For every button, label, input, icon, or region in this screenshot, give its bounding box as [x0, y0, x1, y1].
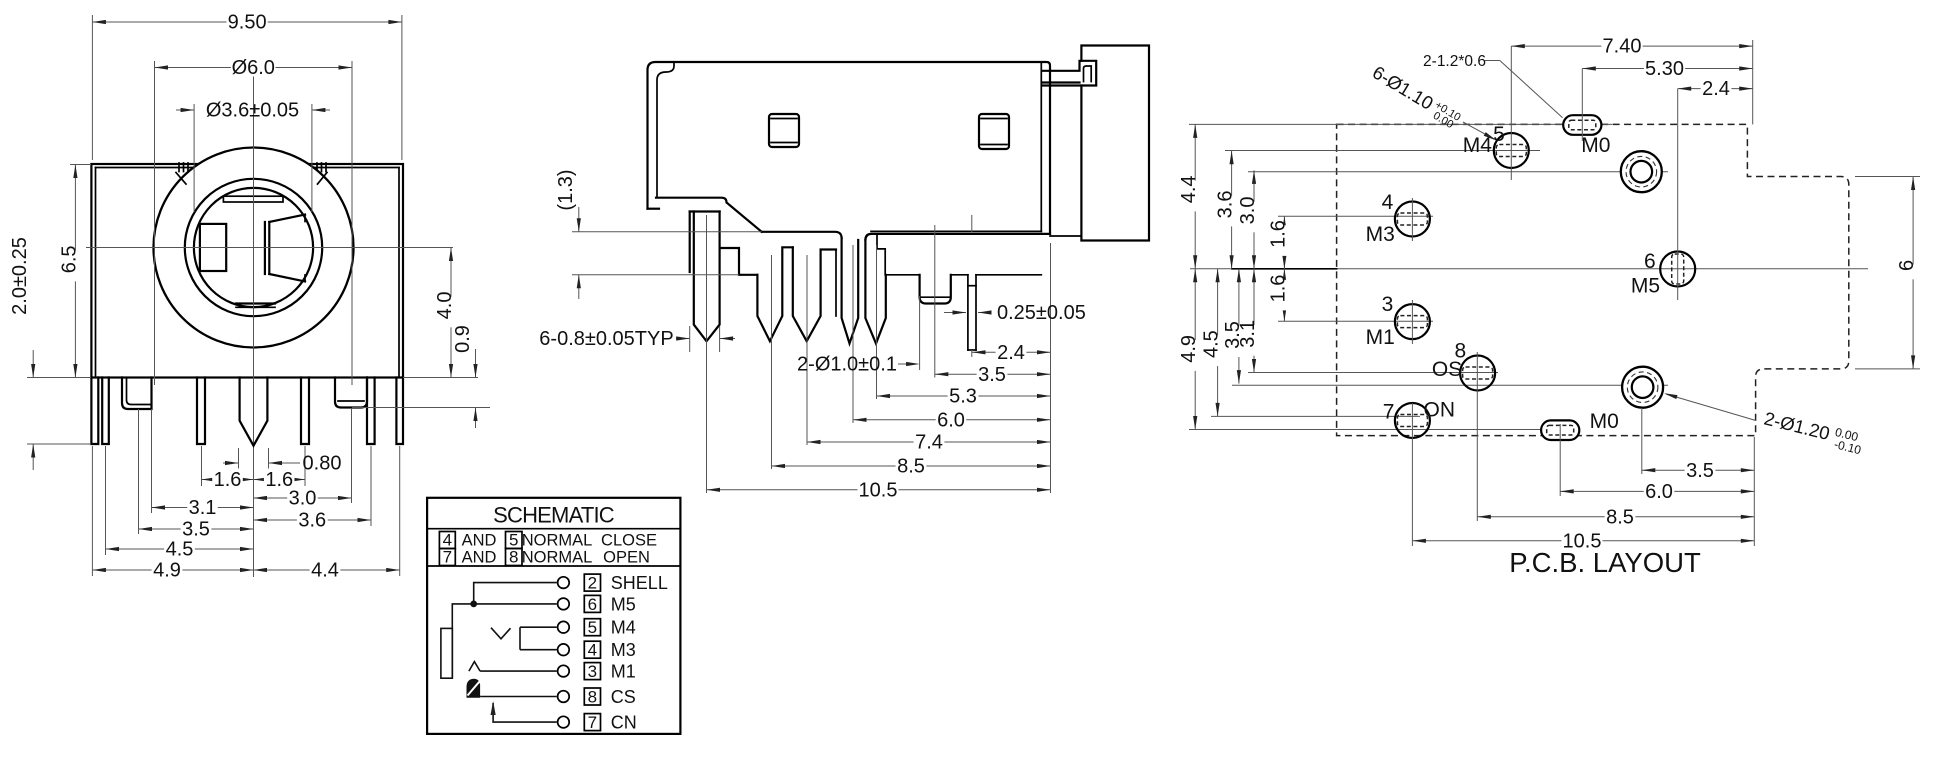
front view centerline horizontal — [86, 247, 453, 249]
dim Ø6.0 extension lines — [154, 61, 156, 385]
side view flat kink pin 0.25 — [967, 275, 969, 350]
schematic box outline — [427, 498, 680, 734]
dim 0.9 — [475, 349, 477, 378]
schematic terminal 7 CN — [558, 716, 570, 728]
dim (1.3) — [578, 207, 580, 232]
svg-text:SHELL: SHELL — [611, 573, 668, 593]
svg-text:2.4: 2.4 — [997, 342, 1025, 364]
pcb shield hole top — [1621, 151, 1662, 192]
svg-text:4.4: 4.4 — [1178, 175, 1200, 203]
dim Ø6.0 — [155, 67, 353, 69]
dim 3.5 front — [139, 528, 254, 530]
front view centerline vertical — [253, 68, 255, 577]
front view left contact — [200, 224, 226, 271]
pcb dim 1.6 lower — [1283, 269, 1285, 322]
pcb hole extension verticals — [1510, 46, 1512, 180]
svg-text:4.4: 4.4 — [311, 560, 339, 582]
svg-text:4.5: 4.5 — [166, 539, 194, 561]
front view shell tab left — [122, 378, 152, 410]
svg-text:7.4: 7.4 — [915, 432, 943, 454]
dim 6.5 extension lines — [70, 164, 91, 166]
svg-text:Ø3.6±0.05: Ø3.6±0.05 — [206, 100, 299, 122]
dim 7.4 — [807, 441, 1051, 443]
svg-text:6: 6 — [1896, 260, 1918, 271]
svg-text:CS: CS — [611, 687, 636, 707]
side view body window hole left — [769, 114, 799, 147]
schematic wire M5 to sleeve — [452, 604, 557, 678]
svg-text:8.5: 8.5 — [897, 456, 925, 478]
dim 4.5 front — [106, 548, 254, 550]
svg-text:9.50: 9.50 — [228, 12, 267, 34]
svg-text:4.5: 4.5 — [1201, 330, 1223, 358]
dim 2.0±0.25 — [32, 350, 34, 378]
pcb hole 5 M4 — [1494, 133, 1529, 168]
svg-text:6.0: 6.0 — [1645, 481, 1673, 503]
svg-text:SCHEMATIC: SCHEMATIC — [493, 503, 615, 528]
dim 3.0 — [254, 497, 352, 499]
side view body window hole right — [979, 114, 1009, 149]
svg-text:NORMAL: NORMAL — [522, 532, 593, 550]
svg-text:M5: M5 — [1631, 275, 1660, 298]
svg-text:2-1.2*0.6: 2-1.2*0.6 — [1423, 53, 1486, 70]
pcb dim 2.4 — [1678, 88, 1753, 90]
dim 8.5 side — [772, 465, 1051, 467]
dim 2.4 side — [972, 351, 1051, 353]
svg-text:3: 3 — [1382, 293, 1394, 316]
schematic sleeve rectangle — [441, 628, 452, 678]
svg-text:4.0: 4.0 — [434, 291, 456, 319]
front view pin right — [367, 378, 375, 445]
svg-text:8.5: 8.5 — [1606, 506, 1634, 528]
svg-text:0.25±0.05: 0.25±0.05 — [997, 302, 1086, 324]
side view barrel-body connecting line — [1050, 235, 1081, 237]
schematic title separator — [427, 528, 680, 530]
schematic junction dot — [470, 601, 477, 608]
dim 6-0.8±0.05TYP — [689, 326, 691, 352]
schematic note row 2: 7 AND 8 NORMAL OPEN — [439, 549, 455, 566]
pcb dim 4.9 — [1194, 269, 1196, 430]
svg-text:1.6: 1.6 — [1267, 220, 1289, 248]
pcb dim 3.6 — [1231, 151, 1233, 269]
pcb hole 4 M3 — [1395, 202, 1430, 237]
schematic terminal 5 M4 — [558, 621, 570, 633]
svg-text:ON: ON — [1424, 399, 1456, 422]
schematic wire M1 — [480, 670, 557, 672]
pcb dim 3.5 left — [1238, 269, 1240, 384]
dim 4.9 — [92, 569, 253, 571]
svg-text:AND: AND — [462, 532, 497, 550]
svg-text:4: 4 — [588, 641, 597, 660]
svg-text:M0: M0 — [1581, 134, 1610, 157]
svg-text:3.6: 3.6 — [1215, 190, 1237, 218]
svg-text:1.6: 1.6 — [1267, 275, 1289, 303]
schematic terminal 4 M3 — [558, 644, 570, 656]
schematic tip contact caret — [469, 662, 480, 672]
dim 5.3 — [877, 395, 1051, 397]
schematic wire CN with actuation arrow — [493, 703, 557, 722]
pcb dim 4.4 — [1194, 124, 1196, 268]
dim 0.25±0.05 — [944, 312, 966, 314]
schematic wire shell — [474, 583, 557, 604]
schematic terminal 8 CS — [558, 691, 570, 703]
front view ring circle inner (jack bore) — [194, 188, 313, 307]
side view body left bottom cap — [648, 208, 660, 210]
svg-text:6: 6 — [588, 595, 597, 614]
front view outer circle (shell barrel) — [154, 148, 354, 348]
svg-text:8: 8 — [509, 548, 518, 567]
pcb oval M0 bottom — [1541, 420, 1579, 440]
front view pin 2nd left — [102, 378, 109, 445]
dim 4.0 extension line — [403, 377, 478, 379]
front view center shield pin (pointed) — [240, 378, 268, 446]
svg-text:6-0.8±0.05TYP: 6-0.8±0.05TYP — [539, 328, 673, 350]
schematic note row 1: 4 AND 5 NORMAL CLOSE — [439, 532, 455, 549]
svg-text:CN: CN — [611, 713, 637, 733]
side view pin 2 — [757, 247, 792, 341]
pcb dim 6 right — [1912, 177, 1914, 369]
front view pin mid-right — [301, 378, 309, 445]
side view top-right solder tab — [1042, 61, 1096, 86]
svg-text:OPEN: OPEN — [603, 549, 650, 567]
pcb hole 7 CN — [1395, 403, 1430, 438]
schematic terminal 2 SHELL — [558, 577, 570, 589]
front view pin mid-left — [197, 378, 205, 445]
pcb centerline dark segment — [1232, 268, 1337, 270]
side view barrel rectangle — [1081, 46, 1149, 241]
svg-text:0.9: 0.9 — [452, 325, 474, 353]
svg-text:6.5: 6.5 — [58, 245, 80, 273]
dim 3.1 — [152, 507, 254, 509]
schematic plug tip (filled) — [467, 679, 481, 698]
front view ring circle outer — [185, 179, 322, 316]
dim Ø3.6±0.05 extension lines — [193, 104, 195, 212]
side view inner bottom step — [877, 234, 920, 275]
svg-text:5.30: 5.30 — [1645, 58, 1684, 80]
pcb dim 3.0 — [1253, 170, 1255, 268]
front view body outline — [91, 164, 403, 378]
front view pin rightmost — [396, 378, 403, 445]
side view body bottom right section — [871, 230, 1041, 232]
schematic wire M3 — [520, 649, 557, 651]
front view body inner wall lines — [95, 168, 97, 378]
pcb shield hole bottom — [1622, 367, 1663, 408]
svg-text:7.40: 7.40 — [1603, 36, 1642, 58]
dim 4.4 front — [254, 569, 400, 571]
side view pin 5 — [865, 240, 885, 344]
svg-text:(1.3): (1.3) — [555, 169, 577, 210]
svg-text:M4: M4 — [1463, 134, 1492, 157]
dim Ø3.6±0.05 — [176, 109, 194, 111]
svg-text:6: 6 — [1644, 250, 1656, 273]
pcb dim 5.30 — [1582, 68, 1752, 70]
svg-text:AND: AND — [462, 549, 497, 567]
side view extension lines — [706, 215, 708, 493]
pcb leader 6-Ø1.10 +0.10/0.00 — [1367, 61, 1463, 132]
svg-text:4: 4 — [1382, 191, 1394, 214]
dim 0.80 — [223, 462, 239, 464]
svg-text:3.0: 3.0 — [1237, 196, 1259, 224]
svg-text:3.5: 3.5 — [182, 519, 210, 541]
pcb dim 3.1 — [1253, 269, 1255, 373]
svg-text:M0: M0 — [1590, 410, 1619, 433]
svg-text:M4: M4 — [611, 618, 636, 638]
svg-text:4.9: 4.9 — [153, 560, 181, 582]
dim 3.5 side — [935, 373, 1051, 375]
side view inner ledge and flap diagonal — [656, 198, 762, 232]
svg-text:M1: M1 — [1366, 326, 1395, 349]
svg-text:10.5: 10.5 — [859, 479, 898, 501]
svg-text:NORMAL: NORMAL — [522, 549, 593, 567]
svg-text:3.5: 3.5 — [1686, 460, 1714, 482]
svg-text:CLOSE: CLOSE — [601, 532, 657, 550]
svg-text:5.3: 5.3 — [949, 386, 977, 408]
dim 10.5 side — [707, 489, 1051, 491]
svg-text:7: 7 — [443, 548, 452, 567]
dim 6.0 side — [853, 419, 1051, 421]
pcb hole 8 CS — [1460, 356, 1495, 391]
svg-text:3.5: 3.5 — [978, 364, 1006, 386]
pcb dim 7.40 — [1511, 45, 1752, 47]
svg-text:3.0: 3.0 — [289, 488, 317, 510]
dim 4.0 — [450, 248, 452, 378]
side view pin 3 — [793, 247, 836, 341]
svg-text:M5: M5 — [611, 594, 636, 614]
side view shell flap bottom — [762, 232, 842, 239]
front view shell fold chamfer left — [176, 173, 186, 185]
pcb left extension lines — [1189, 123, 1612, 125]
svg-text:0.80: 0.80 — [303, 453, 342, 475]
front view shell tab right — [335, 378, 367, 408]
svg-text:2: 2 — [588, 574, 597, 593]
svg-text:1.6: 1.6 — [214, 469, 242, 491]
svg-text:6.0: 6.0 — [937, 409, 965, 431]
side view pin 1 shield pin — [689, 212, 691, 273]
pcb oval M0 top — [1563, 115, 1601, 135]
schematic header separator — [427, 565, 680, 567]
svg-text:3.6: 3.6 — [298, 510, 326, 532]
dim 9.50 extension lines — [91, 15, 93, 160]
side view body inner left wall — [657, 62, 674, 198]
svg-text:5: 5 — [588, 618, 597, 637]
dim 2.0±0.25 extension line — [27, 443, 91, 445]
front view shell fold chamfer right — [318, 173, 328, 185]
pcb layout dashed footprint outline — [1337, 124, 1849, 435]
pcb hole 3 M1 — [1395, 304, 1430, 339]
front view shell seam ticks left — [178, 163, 180, 172]
side view round stub pin M0 — [920, 275, 951, 304]
svg-text:4.9: 4.9 — [1178, 335, 1200, 363]
schematic terminal 3 M1 — [558, 665, 570, 677]
front view right contact (switch) — [264, 222, 266, 274]
svg-text:M3: M3 — [1366, 223, 1395, 246]
pcb dim 3.5 bottom — [1642, 469, 1755, 471]
schematic wire CS — [480, 696, 557, 698]
schematic terminal 6 M5 — [558, 598, 570, 610]
pcb dim 4.5 — [1217, 269, 1219, 417]
front view top contact bar — [223, 196, 283, 202]
svg-text:Ø6.0: Ø6.0 — [232, 57, 275, 79]
svg-text:2.0±0.25: 2.0±0.25 — [9, 237, 31, 315]
schematic wire M4-M3 link — [519, 627, 521, 650]
svg-text:8: 8 — [588, 688, 597, 707]
svg-text:5: 5 — [1493, 123, 1505, 146]
dim 6.5 — [74, 165, 76, 378]
dim 1.6 left — [202, 479, 254, 481]
front view pin leftmost (shell side pin) — [91, 378, 98, 445]
pcb hole 6 M5 — [1660, 252, 1695, 287]
dim 2-Ø1.0±0.1 leader — [919, 296, 921, 370]
svg-text:2-Ø1.0±0.1: 2-Ø1.0±0.1 — [797, 354, 897, 376]
svg-text:M3: M3 — [611, 640, 636, 660]
svg-text:7: 7 — [588, 713, 597, 732]
svg-text:P.C.B. LAYOUT: P.C.B. LAYOUT — [1509, 547, 1701, 578]
front view bottom contact tip — [236, 302, 275, 304]
dim 9.50 — [92, 21, 402, 23]
pcb dim 6 extension lines — [1855, 176, 1920, 178]
pcb dim 10.5 bottom — [1412, 540, 1754, 542]
svg-text:3.1: 3.1 — [1237, 320, 1259, 348]
side view body outer outline — [648, 62, 1051, 234]
side view step right of pin1 — [720, 248, 758, 275]
pcb dim 6.0 bottom — [1560, 490, 1754, 492]
pcb leader 2-Ø1.20 0.00/-0.10 — [1666, 394, 1756, 421]
svg-text:OS: OS — [1432, 358, 1462, 381]
schematic wire M4 — [520, 626, 557, 628]
svg-text:7: 7 — [1383, 401, 1395, 424]
side view pin 4 — [842, 238, 859, 343]
dim 1.6 right — [254, 479, 306, 481]
side view body inner right wall — [1040, 62, 1042, 231]
front view bottom extension lines — [238, 448, 240, 470]
svg-text:3: 3 — [588, 662, 597, 681]
dim (1.3) extension lines — [572, 231, 762, 233]
schematic switch contact V (normally closed 4-5) — [491, 628, 511, 639]
svg-text:3.1: 3.1 — [189, 497, 217, 519]
dim 3.6 — [254, 519, 372, 521]
svg-text:M1: M1 — [611, 662, 636, 682]
pcb dim 1.6 upper — [1283, 216, 1285, 268]
front view shell seam ticks right — [316, 163, 318, 172]
svg-text:2.4: 2.4 — [1702, 78, 1730, 100]
pcb centerline horizontal — [1190, 268, 1868, 270]
dim 0.9 extension line — [352, 407, 490, 409]
pcb dim 8.5 bottom — [1477, 516, 1754, 518]
